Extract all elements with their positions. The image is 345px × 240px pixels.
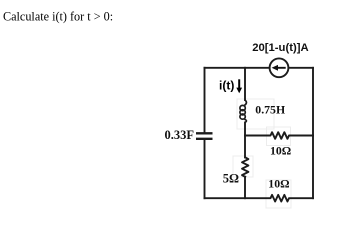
svg-text:5Ω: 5Ω: [223, 171, 239, 185]
svg-text:0.75H: 0.75H: [255, 102, 285, 116]
svg-text:i(t): i(t): [219, 79, 234, 93]
svg-text:10Ω: 10Ω: [268, 177, 289, 191]
svg-text:0.33F: 0.33F: [165, 128, 195, 142]
svg-text:Calculate i(t) for t > 0:: Calculate i(t) for t > 0:: [3, 10, 113, 24]
svg-text:20[1-u(t)]A: 20[1-u(t)]A: [252, 42, 308, 54]
svg-text:10Ω: 10Ω: [270, 144, 291, 158]
